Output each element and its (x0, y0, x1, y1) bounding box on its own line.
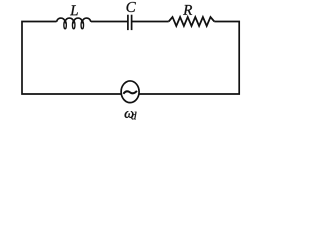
resistor R zigzag (169, 17, 215, 26)
label omega subscript d (131, 112, 136, 120)
inductor bottom loop 3 (81, 21, 84, 29)
AC source circle (121, 81, 139, 103)
inductor L coil top humps (57, 18, 91, 22)
capacitor C right plate (131, 15, 133, 30)
wire between inductor and capacitor (91, 21, 128, 23)
inductor bottom loop 1 (64, 21, 67, 29)
label L (70, 5, 78, 15)
label omega_d (125, 111, 134, 118)
inductor bottom loop 2 (72, 21, 75, 29)
wire loop: left, bottom, right verticals and top-left / top-right segments (22, 22, 239, 95)
AC source tilde (123, 91, 136, 94)
wire between capacitor and resistor (132, 21, 169, 23)
capacitor C left plate (127, 15, 129, 30)
label R (183, 5, 192, 15)
label C (127, 2, 136, 12)
